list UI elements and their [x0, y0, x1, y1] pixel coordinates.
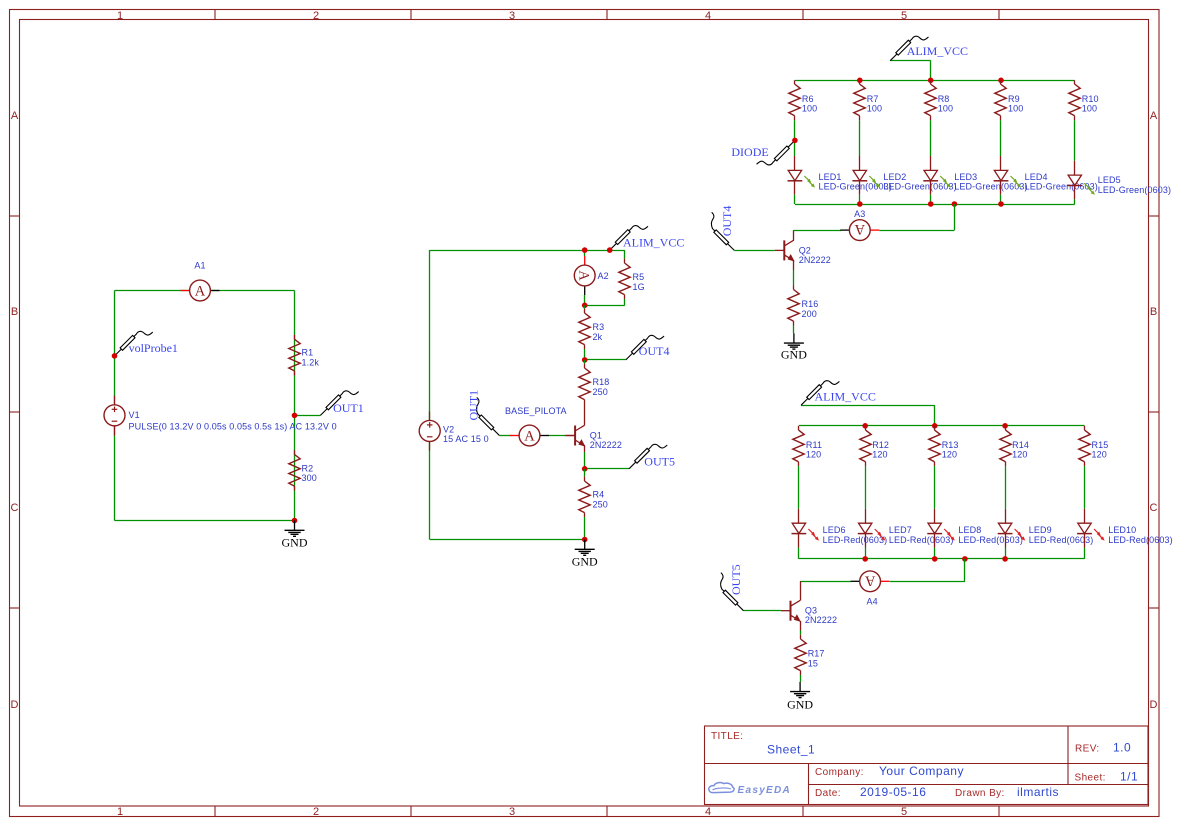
svg-text:15 AC 15 0: 15 AC 15 0: [443, 434, 489, 444]
svg-text:Q2: Q2: [799, 245, 811, 255]
net flag OUT1: [320, 391, 363, 416]
svg-text:Drawn By:: Drawn By:: [955, 788, 1005, 799]
wire R6 to LED1: [794, 120, 796, 156]
frame row letters left: [11, 110, 19, 711]
title block REV divider: [1067, 726, 1069, 785]
svg-text:Sheet_1: Sheet_1: [767, 743, 815, 757]
wire R13 to LED8: [934, 466, 936, 509]
net flag OUT5 (rotated): [721, 564, 744, 610]
svg-text:R5: R5: [633, 272, 645, 282]
svg-text:C: C: [11, 502, 19, 514]
svg-text:Q1: Q1: [590, 431, 602, 441]
svg-text:3: 3: [509, 10, 515, 22]
svg-text:250: 250: [593, 499, 608, 509]
svg-text:PULSE(0 13.2V 0 0.05s 0.05s 0.: PULSE(0 13.2V 0 0.05s 0.05s 0.5s 1s) AC …: [129, 421, 337, 431]
LED9 LED-Red(0603): [998, 509, 1013, 559]
LED10 emission arrows: [1094, 529, 1105, 541]
svg-text:2k: 2k: [593, 332, 603, 342]
resistor R14: [1000, 426, 1011, 466]
svg-text:GND: GND: [781, 347, 807, 361]
svg-text:A3: A3: [854, 209, 865, 219]
wire green-bank top bus: [795, 80, 1075, 82]
R3 labels: [593, 322, 605, 342]
R7 labels: [867, 94, 882, 113]
wire green-bank bottom bus: [795, 204, 1075, 206]
junction green bus bottom A3 drop: [952, 201, 958, 207]
svg-text:DIODE: DIODE: [731, 145, 768, 159]
junction DIODE node: [792, 138, 798, 144]
svg-text:A: A: [195, 284, 206, 300]
svg-text:LED7: LED7: [889, 525, 912, 535]
LED8 LED-Red(0603): [927, 509, 942, 559]
wire mid-loop left side: [429, 250, 431, 539]
wire OUT1 stub: [295, 415, 321, 417]
svg-text:R3: R3: [593, 322, 605, 332]
R5 labels: [633, 272, 645, 292]
svg-text:120: 120: [1092, 449, 1107, 459]
wire R12 to LED7: [865, 466, 867, 509]
junction red bus top R14: [1002, 423, 1008, 429]
R4 labels: [593, 490, 608, 510]
svg-text:A1: A1: [194, 261, 205, 271]
resistor R4: [579, 469, 590, 540]
junction volProbe1 node: [112, 353, 118, 359]
resistor R6: [789, 80, 800, 120]
svg-text:100: 100: [1008, 103, 1023, 113]
svg-text:100: 100: [938, 103, 953, 113]
svg-text:120: 120: [942, 449, 957, 459]
resistor R11: [793, 426, 804, 466]
LED3 labels: [954, 172, 1027, 192]
svg-text:LED-Red(0603): LED-Red(0603): [1029, 535, 1094, 545]
net flag ALIM_VCC mid: [610, 226, 685, 251]
junction green bus bottom LED2: [857, 201, 863, 207]
svg-text:LED-Green(0603): LED-Green(0603): [1025, 182, 1098, 192]
title block row divider 2: [809, 784, 1149, 786]
title block outer box: [705, 726, 1149, 805]
svg-text:R2: R2: [302, 463, 314, 473]
svg-text:1: 1: [117, 10, 123, 22]
ground GND left circuit: [282, 521, 308, 550]
EasyEDA logo: [709, 783, 791, 796]
svg-text:200: 200: [802, 309, 817, 319]
svg-text:REV:: REV:: [1075, 744, 1100, 755]
frame row ticks left: [10, 216, 20, 608]
R6 labels: [802, 94, 817, 113]
wire left-loop top: [115, 290, 295, 292]
R11 labels: [806, 440, 822, 459]
svg-text:V2: V2: [443, 425, 454, 435]
resistor R1: [289, 335, 300, 376]
svg-text:LED8: LED8: [958, 525, 981, 535]
svg-text:Company:: Company:: [815, 767, 864, 778]
svg-text:LED3: LED3: [954, 172, 977, 182]
svg-text:LED1: LED1: [819, 172, 842, 182]
svg-text:ALIM_VCC: ALIM_VCC: [907, 44, 968, 58]
frame column ticks top: [215, 10, 999, 20]
V1 value label PULSE: [129, 410, 337, 432]
voltage source V2: [419, 412, 440, 451]
frame column numbers top: [117, 10, 907, 22]
svg-text:LED-Red(0603): LED-Red(0603): [889, 535, 954, 545]
svg-text:250: 250: [593, 387, 608, 397]
wire A4 branch: [800, 559, 965, 582]
svg-text:A: A: [854, 221, 865, 237]
R15 labels: [1092, 440, 1109, 459]
svg-text:LED5: LED5: [1098, 175, 1121, 185]
svg-text:A: A: [524, 429, 535, 445]
frame column ticks bottom: [215, 806, 999, 817]
LED1 labels: [819, 172, 892, 192]
wire left-loop left side: [114, 291, 116, 521]
junction red bus top R12: [862, 423, 868, 429]
resistor R17: [795, 635, 806, 682]
LED10 labels: [1108, 525, 1173, 545]
junction green bus top R7: [857, 78, 863, 84]
svg-text:2N2222: 2N2222: [805, 615, 837, 625]
svg-text:1/1: 1/1: [1120, 770, 1138, 784]
junction red bus bottom LED9: [1002, 556, 1008, 562]
svg-text:5: 5: [901, 10, 907, 22]
svg-text:Sheet:: Sheet:: [1075, 773, 1106, 784]
wire A3 branch: [794, 204, 955, 231]
ground GND middle circuit: [572, 540, 598, 569]
net flag ALIM_VCC green bank: [890, 36, 968, 80]
svg-text:Q3: Q3: [805, 606, 817, 616]
R9 labels: [1008, 94, 1023, 113]
wire OUT4 stub mid: [585, 359, 626, 361]
svg-text:2N2222: 2N2222: [590, 440, 622, 450]
svg-text:1.2k: 1.2k: [302, 357, 320, 367]
LED4 labels: [1025, 172, 1098, 192]
svg-text:120: 120: [1012, 449, 1027, 459]
junction red bus bottom LED7: [862, 556, 868, 562]
LED8 labels: [958, 525, 1023, 545]
svg-text:A: A: [1150, 110, 1158, 122]
LED1 LED-Green(0603): [788, 156, 803, 204]
svg-text:R17: R17: [808, 649, 825, 659]
svg-text:OUT5: OUT5: [644, 455, 675, 469]
junction ALIM_VCC mid node: [607, 247, 613, 253]
LED3 LED-Green(0603): [923, 156, 938, 204]
wire OUT5 to Q3 base: [744, 610, 781, 612]
net probe DIODE: [731, 140, 795, 165]
svg-text:LED-Green(0603): LED-Green(0603): [819, 182, 892, 192]
ground GND Q2 emitter: [781, 333, 807, 361]
wire R9 to LED4: [1000, 120, 1002, 156]
Q2 labels: [799, 245, 831, 265]
net probe volProbe1: [115, 331, 178, 356]
LED3 emission arrows: [940, 176, 951, 188]
svg-text:300: 300: [302, 473, 317, 483]
LED5 LED-Green(0603): [1067, 161, 1082, 204]
R8 labels: [938, 94, 953, 113]
ammeter A1: [181, 261, 220, 301]
junction red bus bottom LED8: [932, 556, 938, 562]
resistor R2: [289, 450, 300, 490]
svg-text:Date:: Date:: [815, 788, 841, 799]
svg-text:R4: R4: [593, 490, 605, 500]
wire red-bank top bus: [799, 425, 1085, 427]
svg-text:2019-05-16: 2019-05-16: [860, 785, 926, 799]
svg-text:A: A: [864, 572, 875, 588]
junction green bus top R9: [998, 78, 1004, 84]
title block logo cell divider: [808, 764, 810, 805]
junction mid GND node: [582, 537, 588, 543]
ammeter BASE_PILOTA: [499, 406, 575, 446]
net flag OUT4 (rotated): [711, 206, 734, 251]
svg-text:120: 120: [806, 449, 821, 459]
svg-text:BASE_PILOTA: BASE_PILOTA: [505, 406, 567, 416]
svg-text:OUT1: OUT1: [333, 401, 364, 415]
resistor R16: [788, 282, 799, 333]
svg-text:LED6: LED6: [823, 525, 846, 535]
transistor Q3 2N2222: [781, 581, 801, 622]
svg-text:ALIM_VCC: ALIM_VCC: [815, 390, 876, 404]
svg-text:A: A: [576, 270, 592, 281]
svg-text:LED-Green(0603): LED-Green(0603): [1098, 185, 1171, 195]
svg-text:D: D: [11, 699, 19, 711]
net flag OUT5 mid: [629, 444, 675, 469]
junction OUT5 node mid: [582, 466, 588, 472]
R18 labels: [593, 377, 610, 397]
svg-text:LED-Red(0603): LED-Red(0603): [958, 535, 1023, 545]
junction bottom GND node: [292, 518, 298, 524]
svg-text:GND: GND: [572, 554, 598, 568]
wire R8 to LED3: [930, 120, 932, 156]
wire R11 to LED6: [798, 466, 800, 509]
R13 labels: [942, 440, 959, 459]
svg-text:GND: GND: [282, 535, 308, 549]
LED2 labels: [883, 172, 956, 192]
svg-text:C: C: [1150, 502, 1158, 514]
svg-text:5: 5: [901, 806, 907, 818]
svg-text:2N2222: 2N2222: [799, 255, 831, 265]
frame row letters right: [1150, 110, 1158, 711]
svg-text:Your Company: Your Company: [879, 764, 964, 778]
junction red bus top R13: [932, 423, 938, 429]
svg-text:LED4: LED4: [1025, 172, 1048, 182]
wire R7 to LED2: [859, 120, 861, 156]
svg-text:2: 2: [313, 10, 319, 22]
svg-text:100: 100: [802, 103, 817, 113]
svg-text:15: 15: [808, 658, 818, 668]
voltage source V1: [104, 396, 125, 436]
wire Q3 emitter down: [800, 621, 802, 635]
svg-text:TITLE:: TITLE:: [711, 731, 743, 742]
junction A2/R5 node: [582, 303, 588, 309]
net flag OUT1 mid (rotated): [467, 390, 500, 436]
junction green bus top R8: [928, 78, 934, 84]
wire mid-loop bottom: [430, 539, 585, 541]
Q3 labels: [805, 606, 837, 626]
wire left-loop right side: [294, 291, 296, 521]
wire red-bank bottom bus: [799, 558, 1085, 560]
junction green bus bottom LED3: [928, 201, 934, 207]
resistor R5: [585, 250, 631, 305]
resistor R18: [579, 360, 590, 425]
svg-text:B: B: [11, 306, 18, 318]
svg-text:LED-Red(0603): LED-Red(0603): [1108, 535, 1173, 545]
resistor R12: [860, 426, 871, 466]
LED5 labels: [1098, 175, 1171, 195]
svg-text:A4: A4: [867, 596, 878, 606]
ammeter A4 (rotated): [851, 571, 890, 606]
svg-text:4: 4: [705, 806, 711, 818]
V2 value label: [443, 425, 489, 445]
svg-text:OUT4: OUT4: [639, 344, 670, 358]
svg-text:volProbe1: volProbe1: [129, 341, 178, 355]
svg-text:R18: R18: [593, 377, 610, 387]
ammeter A2: [574, 250, 608, 305]
svg-text:2: 2: [313, 806, 319, 818]
LED6 LED-Red(0603): [792, 509, 807, 559]
resistor R7: [854, 80, 865, 120]
LED6 labels: [823, 525, 888, 545]
R16 labels: [802, 299, 819, 319]
svg-text:R1: R1: [302, 348, 314, 358]
LED2 emission arrows: [869, 176, 880, 188]
svg-text:3: 3: [509, 806, 515, 818]
wire Q2 emitter down: [793, 261, 795, 282]
LED5 emission arrows: [1084, 183, 1095, 195]
svg-text:A: A: [11, 110, 19, 122]
frame row ticks right: [1149, 216, 1160, 608]
svg-text:D: D: [1150, 699, 1158, 711]
junction OUT4 node mid: [582, 357, 588, 363]
svg-text:ilmartis: ilmartis: [1017, 785, 1059, 799]
transistor Q1 2N2222: [566, 425, 586, 447]
Q1 labels: [590, 431, 622, 451]
svg-text:B: B: [1150, 306, 1157, 318]
R2 labels: [302, 463, 317, 483]
svg-text:OUT1: OUT1: [467, 390, 481, 421]
svg-text:4: 4: [705, 10, 711, 22]
svg-text:LED10: LED10: [1108, 525, 1136, 535]
svg-text:LED2: LED2: [883, 172, 906, 182]
ground GND Q3 emitter: [787, 682, 813, 712]
LED9 emission arrows: [1015, 529, 1026, 541]
wire R14 to LED9: [1005, 466, 1007, 509]
wire OUT4 to Q2 base: [734, 250, 774, 252]
junction OUT1 node: [292, 413, 298, 419]
svg-text:1.0: 1.0: [1113, 741, 1131, 755]
svg-text:A2: A2: [598, 271, 609, 281]
resistor R8: [925, 80, 936, 120]
junction red bus bottom A4 drop: [962, 556, 968, 562]
LED7 emission arrows: [875, 529, 886, 541]
LED10 LED-Red(0603): [1077, 509, 1092, 559]
title block row divider 1: [705, 763, 1149, 765]
svg-text:1G: 1G: [633, 282, 645, 292]
svg-text:100: 100: [867, 103, 882, 113]
svg-text:R16: R16: [802, 299, 819, 309]
frame column numbers bottom: [117, 806, 907, 818]
resistor R10: [1069, 80, 1080, 120]
svg-text:ALIM_VCC: ALIM_VCC: [623, 236, 684, 250]
wire left-loop bottom: [115, 520, 295, 522]
resistor R15: [1079, 426, 1090, 466]
R14 labels: [1012, 440, 1029, 459]
R10 labels: [1082, 94, 1099, 113]
R12 labels: [872, 440, 889, 459]
svg-text:V1: V1: [129, 410, 140, 420]
svg-text:LED9: LED9: [1029, 525, 1052, 535]
LED9 labels: [1029, 525, 1094, 545]
svg-text:GND: GND: [787, 697, 813, 711]
LED8 emission arrows: [944, 529, 955, 541]
wire R10 to LED5: [1074, 120, 1076, 161]
LED7 labels: [889, 525, 954, 545]
resistor R13: [929, 426, 940, 466]
svg-text:100: 100: [1082, 103, 1097, 113]
svg-text:LED-Red(0603): LED-Red(0603): [823, 535, 888, 545]
LED4 LED-Green(0603): [994, 156, 1009, 204]
R1 labels: [302, 348, 320, 368]
transistor Q2 2N2222: [775, 230, 795, 262]
svg-text:OUT5: OUT5: [729, 564, 743, 595]
svg-text:1: 1: [117, 806, 123, 818]
junction green bus bottom LED4: [998, 201, 1004, 207]
junction A2 top node: [582, 247, 588, 253]
R17 labels: [808, 649, 825, 669]
LED6 emission arrows: [808, 529, 819, 541]
svg-text:OUT4: OUT4: [720, 206, 734, 237]
resistor R3: [579, 305, 590, 360]
ammeter A3 (rotated): [840, 209, 879, 241]
LED2 LED-Green(0603): [852, 156, 867, 204]
svg-text:EasyEDA: EasyEDA: [738, 785, 792, 796]
LED4 emission arrows: [1011, 176, 1022, 188]
net flag ALIM_VCC red bank: [801, 381, 935, 426]
LED1 emission arrows: [804, 176, 815, 188]
net flag OUT4 mid: [626, 335, 670, 360]
wire OUT5 stub mid: [585, 468, 629, 470]
wire mid-loop top: [430, 250, 625, 252]
svg-text:120: 120: [872, 449, 887, 459]
LED7 LED-Red(0603): [858, 509, 873, 559]
wire R15 to LED10: [1084, 466, 1086, 509]
wire Q1 emitter to OUT5 node: [584, 446, 586, 469]
resistor R9: [995, 80, 1006, 120]
